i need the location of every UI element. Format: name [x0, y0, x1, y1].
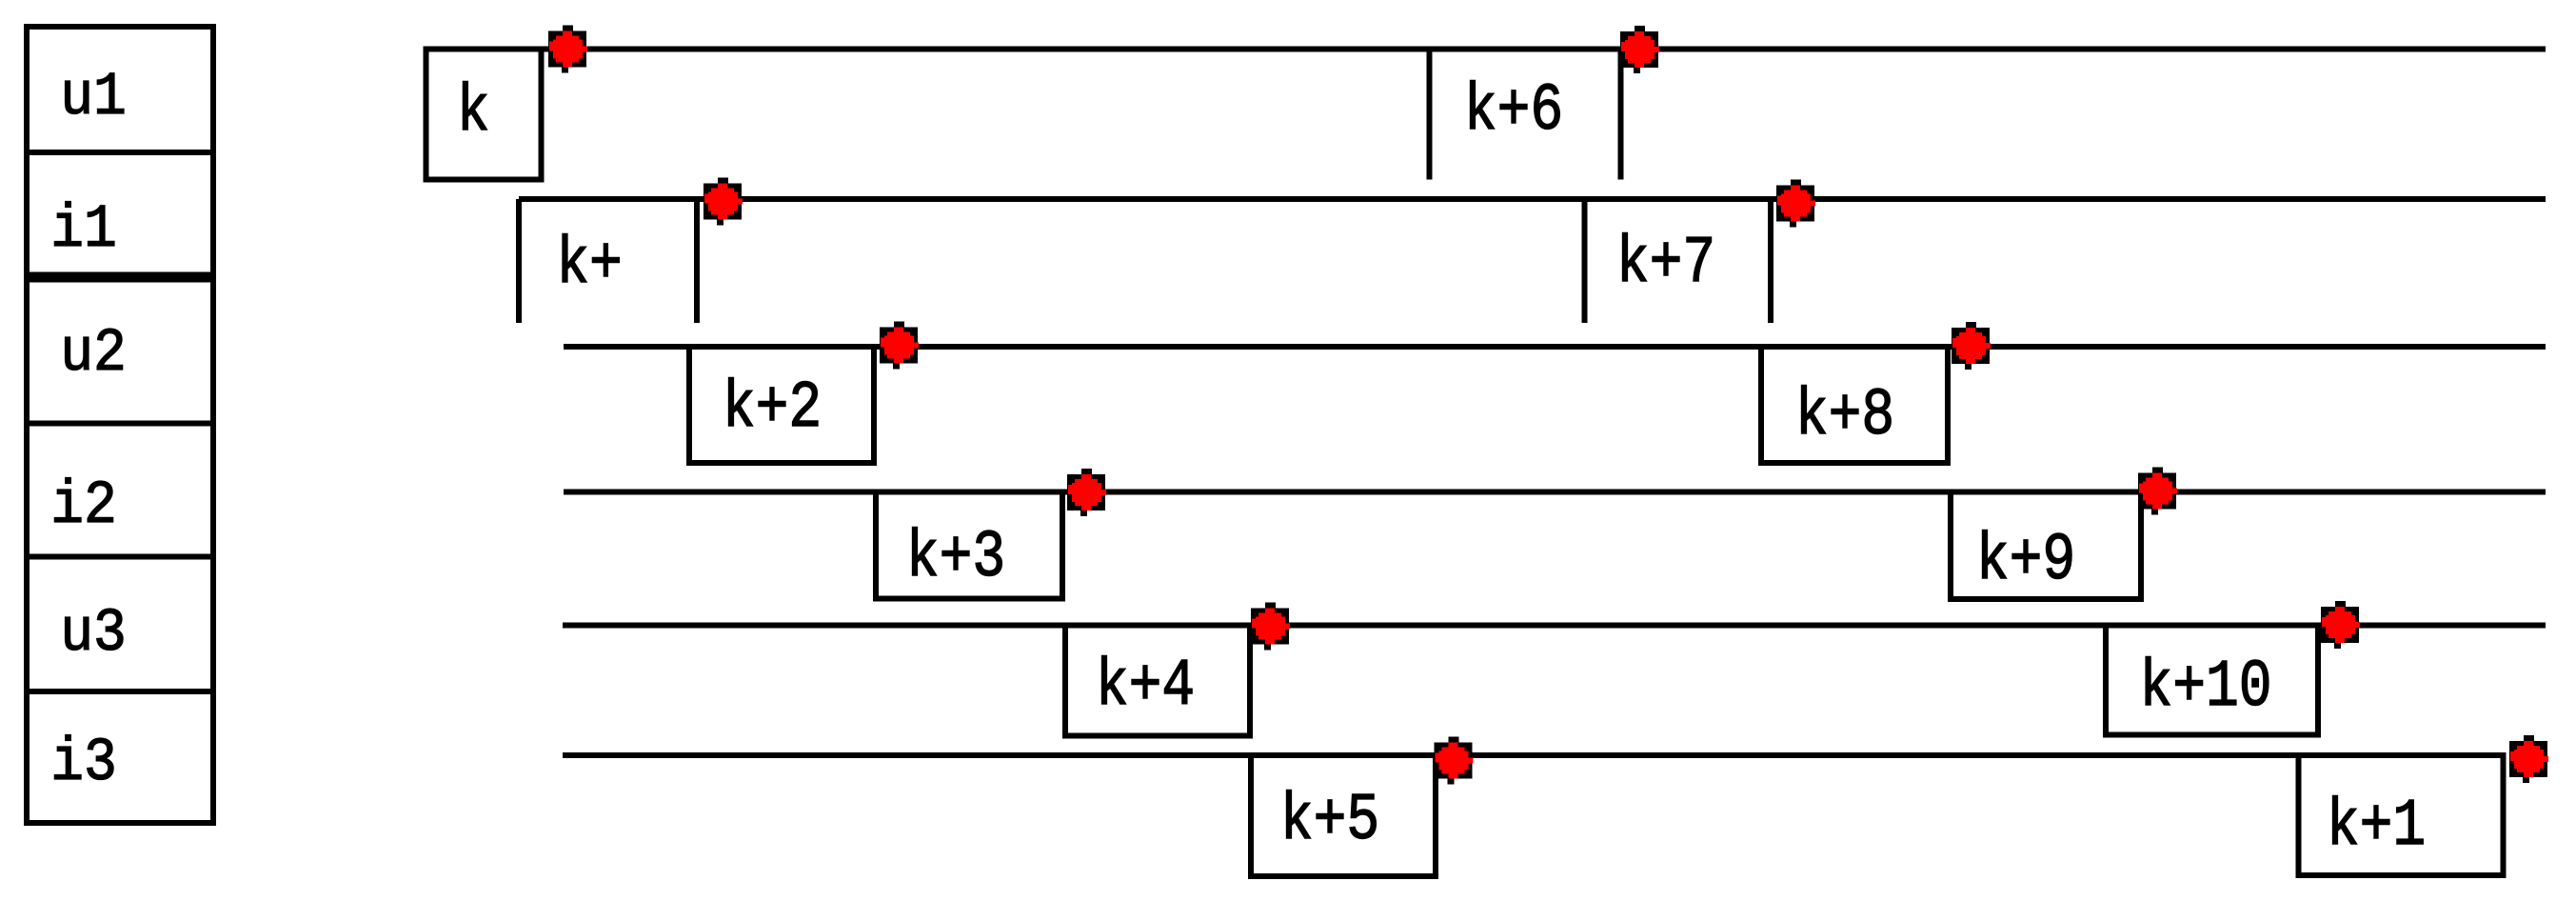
svg-text:k+8: k+8	[1795, 380, 1894, 454]
svg-text:i1: i1	[50, 196, 117, 265]
svg-text:k+5: k+5	[1280, 785, 1379, 859]
svg-text:k+3: k+3	[906, 522, 1005, 596]
svg-text:i2: i2	[50, 472, 117, 541]
svg-text:k+7: k+7	[1616, 228, 1715, 302]
svg-text:k+: k+	[556, 229, 623, 303]
svg-text:u1: u1	[60, 64, 127, 132]
svg-text:u2: u2	[60, 320, 127, 389]
svg-text:k+10: k+10	[2139, 651, 2271, 726]
svg-text:k+2: k+2	[723, 372, 822, 447]
svg-text:k: k	[457, 76, 490, 150]
svg-text:k+9: k+9	[1976, 525, 2075, 599]
svg-text:k+4: k+4	[1096, 651, 1195, 725]
svg-text:i3: i3	[50, 730, 117, 798]
svg-text:u3: u3	[60, 600, 127, 669]
svg-text:k+6: k+6	[1464, 75, 1563, 150]
svg-text:k+1: k+1	[2327, 791, 2426, 865]
